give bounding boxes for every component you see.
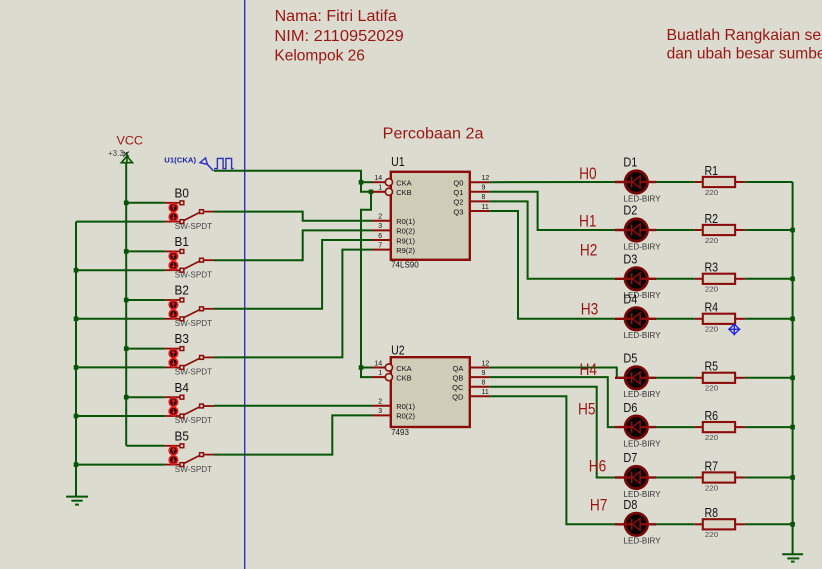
svg-text:D4: D4 bbox=[623, 293, 637, 307]
svg-text:R3: R3 bbox=[705, 261, 719, 275]
svg-text:D3: D3 bbox=[623, 253, 637, 267]
svg-text:3: 3 bbox=[378, 223, 382, 230]
svg-text:Q1: Q1 bbox=[453, 188, 463, 197]
svg-text:B2: B2 bbox=[175, 284, 189, 298]
svg-text:6: 6 bbox=[378, 233, 382, 240]
svg-text:H1: H1 bbox=[579, 212, 597, 231]
svg-text:11: 11 bbox=[482, 204, 489, 211]
svg-text:Buatlah Rangkaian sesuai: Buatlah Rangkaian sesuai bbox=[667, 27, 822, 44]
svg-text:LED-BIRY: LED-BIRY bbox=[624, 537, 662, 546]
svg-text:B5: B5 bbox=[175, 429, 189, 443]
svg-text:VCC: VCC bbox=[117, 134, 144, 148]
svg-text:D2: D2 bbox=[623, 204, 637, 218]
svg-text:12: 12 bbox=[482, 360, 490, 367]
svg-text:8: 8 bbox=[482, 194, 486, 201]
svg-text:9: 9 bbox=[482, 370, 486, 377]
svg-text:220: 220 bbox=[705, 384, 718, 393]
svg-text:LED-BIRY: LED-BIRY bbox=[624, 390, 662, 399]
svg-text:2: 2 bbox=[378, 399, 382, 406]
svg-text:H0: H0 bbox=[579, 164, 597, 183]
svg-text:220: 220 bbox=[705, 188, 718, 197]
svg-text:R9(2): R9(2) bbox=[396, 246, 415, 255]
svg-text:CKA: CKA bbox=[396, 364, 411, 373]
svg-text:R2: R2 bbox=[705, 212, 719, 226]
svg-text:74LS90: 74LS90 bbox=[391, 261, 419, 270]
svg-text:R1: R1 bbox=[705, 164, 719, 178]
svg-text:7493: 7493 bbox=[391, 428, 409, 437]
svg-text:8: 8 bbox=[482, 380, 486, 387]
svg-text:R0(1): R0(1) bbox=[396, 217, 415, 226]
svg-text:Q3: Q3 bbox=[453, 207, 463, 216]
svg-text:14: 14 bbox=[374, 175, 382, 182]
svg-text:R0(1): R0(1) bbox=[396, 402, 415, 411]
svg-text:B0: B0 bbox=[175, 186, 189, 200]
svg-text:R9(1): R9(1) bbox=[396, 236, 415, 245]
svg-text:LED-BIRY: LED-BIRY bbox=[624, 242, 662, 251]
svg-text:R8: R8 bbox=[705, 506, 719, 520]
svg-text:H5: H5 bbox=[578, 400, 596, 419]
svg-text:220: 220 bbox=[705, 285, 718, 294]
svg-text:R0(2): R0(2) bbox=[396, 227, 415, 236]
svg-text:CKB: CKB bbox=[396, 188, 411, 197]
svg-text:D6: D6 bbox=[623, 401, 637, 415]
svg-text:QA: QA bbox=[453, 364, 464, 373]
svg-text:+3.3: +3.3 bbox=[108, 149, 124, 158]
svg-text:QC: QC bbox=[452, 383, 464, 392]
svg-text:11: 11 bbox=[482, 389, 489, 396]
svg-text:1: 1 bbox=[378, 370, 382, 377]
svg-text:H2: H2 bbox=[580, 241, 598, 260]
svg-text:D1: D1 bbox=[623, 156, 637, 170]
svg-text:LED-BIRY: LED-BIRY bbox=[624, 194, 662, 203]
svg-text:R6: R6 bbox=[705, 409, 719, 423]
svg-text:1: 1 bbox=[378, 185, 382, 192]
svg-text:7: 7 bbox=[378, 242, 382, 249]
svg-text:dan ubah besar sumber: dan ubah besar sumber bbox=[667, 45, 822, 62]
svg-text:B1: B1 bbox=[175, 235, 189, 249]
svg-text:U1: U1 bbox=[391, 155, 405, 169]
svg-text:H7: H7 bbox=[590, 496, 608, 515]
svg-text:220: 220 bbox=[705, 236, 718, 245]
svg-text:H4: H4 bbox=[580, 360, 598, 379]
svg-text:H3: H3 bbox=[581, 300, 599, 319]
svg-text:220: 220 bbox=[705, 483, 718, 492]
svg-text:R0(2): R0(2) bbox=[396, 412, 415, 421]
svg-text:Q2: Q2 bbox=[453, 198, 463, 207]
svg-text:H6: H6 bbox=[589, 456, 607, 475]
svg-text:D5: D5 bbox=[623, 352, 637, 366]
svg-text:3: 3 bbox=[378, 408, 382, 415]
svg-text:12: 12 bbox=[482, 175, 490, 182]
svg-text:D7: D7 bbox=[623, 451, 637, 465]
svg-text:Percobaan 2a: Percobaan 2a bbox=[383, 126, 484, 143]
svg-text:R4: R4 bbox=[705, 301, 719, 315]
svg-text:R7: R7 bbox=[705, 459, 719, 473]
svg-text:Nama: Fitri Latifa: Nama: Fitri Latifa bbox=[275, 8, 398, 25]
svg-text:CKB: CKB bbox=[396, 373, 411, 382]
svg-text:9: 9 bbox=[482, 185, 486, 192]
svg-text:U1(CKA): U1(CKA) bbox=[164, 155, 196, 164]
svg-text:QD: QD bbox=[452, 393, 464, 402]
svg-text:U2: U2 bbox=[391, 344, 405, 358]
svg-text:220: 220 bbox=[705, 325, 718, 334]
svg-text:CKA: CKA bbox=[396, 179, 411, 188]
svg-text:LED-BIRY: LED-BIRY bbox=[624, 439, 662, 448]
svg-text:LED-BIRY: LED-BIRY bbox=[624, 331, 662, 340]
svg-text:220: 220 bbox=[705, 433, 718, 442]
svg-text:2: 2 bbox=[378, 214, 382, 221]
svg-text:QB: QB bbox=[453, 373, 464, 382]
svg-text:Kelompok 26: Kelompok 26 bbox=[274, 47, 365, 64]
svg-text:14: 14 bbox=[374, 360, 382, 367]
svg-text:B3: B3 bbox=[175, 332, 189, 346]
svg-text:B4: B4 bbox=[175, 381, 189, 395]
svg-text:Q0: Q0 bbox=[453, 179, 463, 188]
svg-text:D8: D8 bbox=[623, 498, 637, 512]
svg-text:220: 220 bbox=[705, 530, 718, 539]
svg-text:R5: R5 bbox=[705, 360, 719, 374]
svg-text:NIM: 2110952029: NIM: 2110952029 bbox=[274, 28, 403, 45]
